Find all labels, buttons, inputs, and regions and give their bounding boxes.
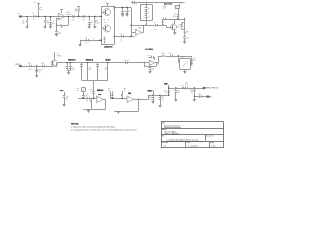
svg-text:1u: 1u xyxy=(91,91,93,93)
capacitor C9 xyxy=(173,14,180,19)
svg-text:100k: 100k xyxy=(96,22,100,24)
resistor R5 xyxy=(57,25,64,29)
ground xyxy=(79,40,82,46)
net flag REG2.5 xyxy=(86,59,94,63)
svg-text:REG5.0: REG5.0 xyxy=(97,90,103,92)
resistor R2 xyxy=(38,7,43,17)
svg-text:C31: C31 xyxy=(105,67,108,69)
net flag ENV xyxy=(164,83,169,96)
capacitor C11 xyxy=(183,37,189,42)
svg-text:C7: C7 xyxy=(135,4,137,6)
ground xyxy=(44,27,47,29)
IC U2 xyxy=(101,2,115,49)
svg-text:D5: D5 xyxy=(148,16,150,18)
svg-text:R15: R15 xyxy=(123,88,126,90)
svg-text:C5: C5 xyxy=(128,10,130,12)
ground xyxy=(63,105,66,107)
wire xyxy=(85,16,101,18)
node J xyxy=(126,7,127,8)
ground xyxy=(26,27,29,29)
ground xyxy=(152,102,155,104)
svg-text:File: File xyxy=(162,136,165,138)
wire xyxy=(184,69,186,71)
wire xyxy=(171,56,191,58)
svg-text:12: 12 xyxy=(108,20,110,22)
resistor R9 xyxy=(178,23,184,30)
node B xyxy=(38,16,39,17)
svg-text:C13: C13 xyxy=(41,63,44,65)
ground xyxy=(121,15,124,17)
svg-text:1u: 1u xyxy=(91,23,93,25)
svg-text:C8: C8 xyxy=(154,22,156,24)
capacitor C8 xyxy=(154,22,158,30)
svg-text:C23: C23 xyxy=(177,90,180,92)
svg-text:C15 1u: C15 1u xyxy=(147,55,152,57)
svg-text:TIP31: TIP31 xyxy=(57,55,62,57)
wire xyxy=(200,96,207,98)
wire xyxy=(74,16,82,18)
wire xyxy=(184,19,186,31)
resistor R13 xyxy=(90,98,92,109)
power flag VCC2 xyxy=(60,9,62,13)
output port J4 xyxy=(203,87,219,90)
svg-text:C1: C1 xyxy=(32,13,34,15)
svg-text:8 - Jul-2025: 8 - Jul-2025 xyxy=(188,145,198,147)
node Y xyxy=(144,62,145,63)
svg-text:1. Based on Op4 Connected & St: 1. Based on Op4 Connected & Standard Onl… xyxy=(71,126,115,129)
node H xyxy=(94,16,95,17)
svg-text:10u: 10u xyxy=(149,99,152,101)
ground xyxy=(55,35,58,37)
capacitor C19 xyxy=(82,94,88,98)
capacitor C7 xyxy=(133,1,137,6)
svg-text:D6: D6 xyxy=(182,57,184,59)
node F xyxy=(78,16,79,17)
wire xyxy=(83,99,105,109)
svg-text:C12: C12 xyxy=(28,63,31,65)
svg-text:REG5.0: REG5.0 xyxy=(68,59,76,61)
svg-text:V+: V+ xyxy=(105,2,107,4)
wire xyxy=(112,92,114,96)
wire xyxy=(131,2,185,4)
net flag VREF xyxy=(147,91,153,96)
capacitor C2 xyxy=(49,17,54,27)
wire xyxy=(178,9,180,14)
wire xyxy=(148,95,169,97)
node L xyxy=(177,18,178,19)
wire xyxy=(103,28,106,30)
svg-text:D4: D4 xyxy=(148,12,150,14)
transistor Q3 xyxy=(51,53,61,66)
wire xyxy=(52,65,53,67)
wire xyxy=(56,63,144,67)
capacitor C13 xyxy=(41,63,45,71)
capacitor C18 xyxy=(63,96,69,105)
capacitor C15 xyxy=(147,55,155,60)
node V xyxy=(194,87,195,88)
wire xyxy=(22,16,102,18)
wire xyxy=(139,95,149,99)
node E xyxy=(68,16,69,17)
wire xyxy=(88,98,96,100)
capacitor C20 xyxy=(111,96,114,99)
op-amp U1B xyxy=(136,28,143,36)
wire xyxy=(80,40,101,42)
capacitor C17 xyxy=(190,56,196,64)
capacitor C23 xyxy=(175,88,181,99)
transistor Q1b xyxy=(103,25,110,32)
wire xyxy=(65,16,72,18)
svg-text:5v1: 5v1 xyxy=(39,72,42,74)
svg-text:R21: R21 xyxy=(76,88,79,90)
resistor R6 xyxy=(74,8,79,16)
svg-text:1u: 1u xyxy=(41,69,43,71)
svg-text:1k: 1k xyxy=(165,92,167,94)
net flag BIAS xyxy=(106,58,112,63)
wire xyxy=(156,25,172,27)
node G xyxy=(89,16,90,17)
wire xyxy=(22,66,52,68)
svg-text:C6: C6 xyxy=(120,33,122,35)
op-amp U3B xyxy=(97,94,104,103)
node R xyxy=(112,98,113,99)
capacitor C25 xyxy=(198,94,201,98)
wire xyxy=(144,63,156,67)
svg-text:10u: 10u xyxy=(52,23,55,25)
svg-text:REG2.5: REG2.5 xyxy=(86,59,94,61)
capacitor C24 xyxy=(185,82,188,89)
wire xyxy=(194,96,200,97)
svg-text:1u: 1u xyxy=(86,101,88,103)
node N xyxy=(36,65,37,66)
svg-text:R22: R22 xyxy=(108,88,111,90)
svg-text:C11: C11 xyxy=(186,38,189,40)
svg-text:C22: C22 xyxy=(161,97,164,99)
capacitor C2b xyxy=(55,25,61,34)
resistor R16 xyxy=(164,90,169,94)
svg-text:C16: C16 xyxy=(169,53,172,55)
node C xyxy=(44,16,45,17)
capacitor C21 xyxy=(149,95,154,102)
svg-text:10k: 10k xyxy=(178,26,181,28)
svg-text:1u: 1u xyxy=(128,60,130,62)
svg-text:LM13700: LM13700 xyxy=(104,46,113,48)
wire xyxy=(174,30,176,33)
svg-text:D1: D1 xyxy=(72,19,74,21)
svg-text:2. Incorporated caps are often: 2. Incorporated caps are often wire nois… xyxy=(71,129,137,132)
svg-text:C10: C10 xyxy=(162,22,165,24)
ground xyxy=(35,76,38,78)
pin numbers xyxy=(102,9,114,39)
resistor R15 xyxy=(121,88,126,99)
wire xyxy=(114,99,139,112)
svg-text:1.0: 1.0 xyxy=(164,145,167,147)
svg-text:R9: R9 xyxy=(179,24,181,26)
net flag VB xyxy=(60,90,65,95)
svg-text:1u: 1u xyxy=(85,96,87,98)
ground xyxy=(93,27,96,29)
svg-text:1/2 LM358: 1/2 LM358 xyxy=(145,49,153,51)
svg-text:.1u: .1u xyxy=(177,92,179,94)
node U xyxy=(168,87,169,88)
capacitor C3b xyxy=(85,37,88,44)
capacitor C5 xyxy=(126,8,131,15)
ground xyxy=(174,100,177,102)
wire xyxy=(156,25,162,27)
svg-text:R10: R10 xyxy=(186,32,189,34)
svg-text:10k: 10k xyxy=(191,92,194,94)
wire xyxy=(115,36,135,38)
node P xyxy=(83,98,84,99)
resistor R17 xyxy=(181,85,185,89)
wire xyxy=(155,56,162,63)
node G2 xyxy=(100,40,101,41)
ground xyxy=(183,42,186,44)
node K xyxy=(130,36,131,37)
node T2 xyxy=(159,95,160,96)
svg-text:.1u: .1u xyxy=(72,69,74,71)
diode network D3 xyxy=(140,5,153,21)
svg-text:1u: 1u xyxy=(154,28,156,30)
node U2d xyxy=(100,40,101,41)
capacitor C3 xyxy=(88,17,93,27)
svg-text:1u: 1u xyxy=(85,42,87,44)
output port J5 xyxy=(207,95,213,98)
node A xyxy=(26,16,27,17)
trimpot R22 xyxy=(108,88,111,92)
ground xyxy=(88,27,91,29)
svg-text:C14: C14 xyxy=(124,60,127,62)
svg-text:D2: D2 xyxy=(82,19,84,21)
input port J1 xyxy=(18,13,22,17)
svg-text:R18: R18 xyxy=(190,90,193,92)
node U2 xyxy=(175,87,176,88)
capacitor C10 xyxy=(162,18,166,26)
wire xyxy=(107,63,109,80)
node U2c xyxy=(100,16,101,17)
svg-text:10u: 10u xyxy=(72,67,75,69)
svg-text:C30: C30 xyxy=(88,67,91,69)
transistor Q1 xyxy=(103,8,110,15)
ground xyxy=(183,72,186,74)
capacitor C31 xyxy=(96,63,107,80)
wire xyxy=(103,12,106,14)
wire xyxy=(131,32,136,34)
capacitor C15b xyxy=(149,67,155,72)
IC internal labels xyxy=(104,20,109,25)
svg-text:LM358: LM358 xyxy=(66,14,71,16)
svg-text:10u: 10u xyxy=(185,82,188,84)
node T xyxy=(152,95,153,96)
svg-text:.1u: .1u xyxy=(161,99,163,101)
resistor R8 xyxy=(104,37,106,43)
svg-text:ENVELOPE OUT: ENVELOPE OUT xyxy=(205,88,220,90)
capacitor C21b xyxy=(159,95,165,105)
wire xyxy=(169,88,203,90)
resistor R7 xyxy=(94,17,100,27)
ground xyxy=(173,33,176,35)
svg-text:10k: 10k xyxy=(76,90,79,92)
wire xyxy=(83,92,85,96)
svg-text:C17: C17 xyxy=(193,58,196,60)
power flag VCC3 xyxy=(78,6,80,8)
resistor R1 xyxy=(22,17,28,27)
capacitor C1 xyxy=(32,13,35,21)
input port J2 xyxy=(15,64,21,67)
svg-text:Revision: Revision xyxy=(162,142,168,144)
resistor R3 xyxy=(44,17,49,27)
node I xyxy=(122,7,123,8)
svg-text:Automatic Detector: Automatic Detector xyxy=(164,125,180,128)
svg-text:C9: C9 xyxy=(174,14,176,16)
svg-text:10u: 10u xyxy=(58,32,61,34)
trimpot R21 xyxy=(76,88,85,93)
capacitor C6 xyxy=(120,33,124,41)
ground xyxy=(159,106,162,108)
svg-text:C9: C9 xyxy=(85,37,87,39)
svg-text:R17: R17 xyxy=(181,85,184,87)
resistor R12 xyxy=(161,53,166,57)
svg-text:10u: 10u xyxy=(152,68,155,70)
op-amp U3A xyxy=(149,60,159,66)
wire xyxy=(130,25,154,33)
op-amp U1A xyxy=(59,11,72,20)
trimpot R20 xyxy=(163,4,180,10)
op-amp U4A xyxy=(127,92,134,103)
resistor R18 xyxy=(190,88,195,99)
svg-text:R16: R16 xyxy=(164,91,167,93)
svg-text:C25: C25 xyxy=(198,94,201,96)
title block xyxy=(161,122,224,148)
svg-text:.1u: .1u xyxy=(120,40,122,42)
svg-text:C4: C4 xyxy=(124,10,126,12)
ground xyxy=(49,27,52,29)
capacitor C30 xyxy=(80,63,91,80)
svg-text:10u: 10u xyxy=(193,60,196,62)
capacitor C12 xyxy=(28,63,32,71)
svg-text:BIAS: BIAS xyxy=(106,58,112,61)
svg-text:R5: R5 xyxy=(61,27,63,29)
svg-text:47k: 47k xyxy=(22,22,25,24)
wire xyxy=(145,21,146,26)
capacitor C4 xyxy=(121,8,126,15)
svg-text:CHECK THEORYS: CHECK THEORYS xyxy=(164,134,180,136)
node P2 xyxy=(93,98,94,99)
svg-text:10u: 10u xyxy=(88,69,91,71)
capacitor C16 xyxy=(169,53,173,58)
wire xyxy=(56,18,57,26)
ground xyxy=(190,64,193,66)
ground xyxy=(193,100,196,102)
svg-text:.1u: .1u xyxy=(66,99,68,101)
svg-text:C19: C19 xyxy=(85,94,88,96)
svg-text:.1u: .1u xyxy=(105,69,107,71)
svg-text:C18: C18 xyxy=(66,97,69,99)
svg-text:1 - Sample Speedball Detection: 1 - Sample Speedball Detection v2.0.sae xyxy=(166,138,199,141)
svg-text:R20: R20 xyxy=(163,6,166,8)
node U2a xyxy=(114,7,115,8)
wire xyxy=(178,56,179,63)
resistor R10 xyxy=(184,31,190,37)
svg-text:.1u: .1u xyxy=(32,19,34,21)
transistor Q2 xyxy=(170,19,178,30)
svg-text:Title: Title xyxy=(162,122,165,125)
svg-text:10u: 10u xyxy=(28,69,31,71)
capacitor C33 xyxy=(86,97,90,103)
capacitor C14 xyxy=(124,60,130,64)
wire xyxy=(162,19,185,25)
node O xyxy=(178,55,179,56)
wire xyxy=(144,62,149,64)
svg-text:C32: C32 xyxy=(89,89,92,91)
power flag VCC1 xyxy=(34,2,40,7)
svg-text:NOTES:: NOTES: xyxy=(71,124,79,126)
node D xyxy=(50,16,51,17)
svg-text:R12: R12 xyxy=(162,53,165,55)
svg-text:Gate Time: Gate Time xyxy=(164,3,172,6)
ground xyxy=(149,72,152,74)
wire xyxy=(54,52,56,60)
detector box D6 xyxy=(180,57,191,70)
ground xyxy=(117,111,120,114)
wire xyxy=(81,63,107,81)
regulator tap REG5.0 xyxy=(66,59,77,72)
ground xyxy=(87,110,90,113)
svg-text:10k: 10k xyxy=(74,11,77,13)
wire xyxy=(115,8,132,37)
svg-text:C21: C21 xyxy=(149,97,152,99)
diode D1 xyxy=(72,15,75,21)
capacitor C32 xyxy=(89,89,94,98)
zener D5 xyxy=(36,66,42,75)
svg-text:D3: D3 xyxy=(148,8,150,10)
wire xyxy=(93,80,95,91)
wire xyxy=(63,17,68,26)
wire xyxy=(166,56,170,58)
wire xyxy=(57,18,59,20)
diode D2 xyxy=(82,15,85,21)
wire xyxy=(78,98,87,100)
ground xyxy=(126,15,129,17)
wire xyxy=(110,92,127,99)
node U2b xyxy=(114,36,115,37)
node M xyxy=(184,18,185,19)
svg-text:V+: V+ xyxy=(34,2,36,4)
svg-text:1 of 1: 1 of 1 xyxy=(211,145,216,147)
svg-text:4.7u: 4.7u xyxy=(173,16,176,18)
